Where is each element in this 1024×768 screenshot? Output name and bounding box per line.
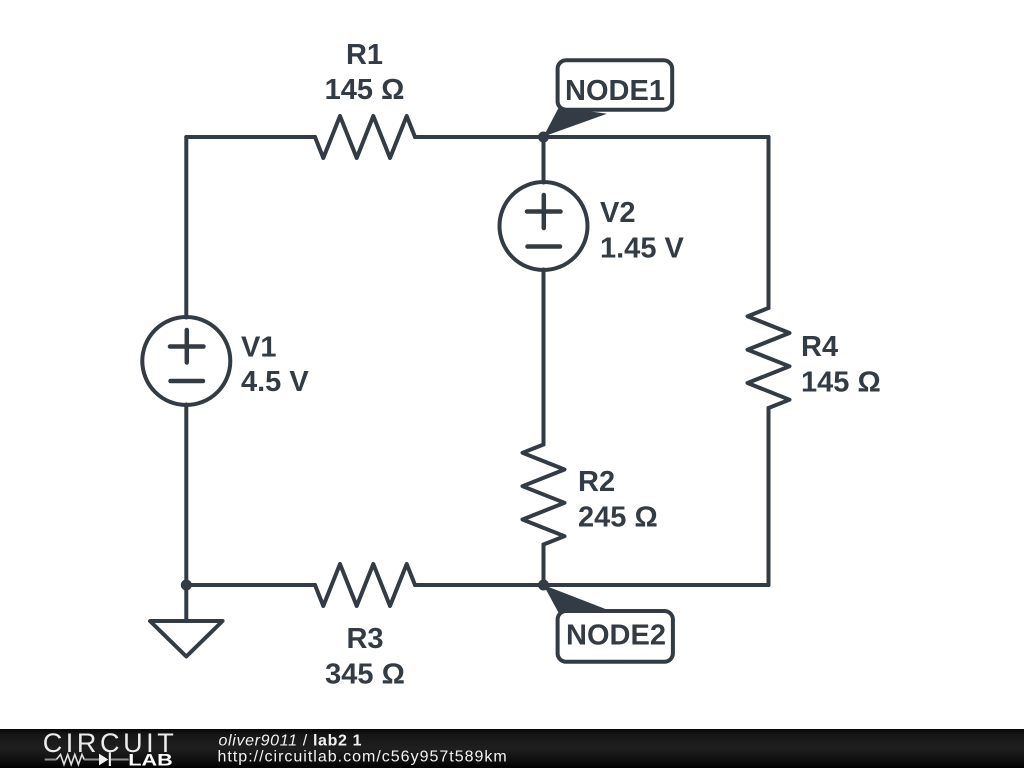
svg-text:NODE1: NODE1	[565, 75, 665, 107]
svg-text:V1: V1	[241, 331, 276, 363]
wire top-right horizontal	[415, 135, 769, 139]
resistor R1	[315, 116, 415, 158]
node NODE2 callout	[544, 585, 673, 662]
wire left vertical lower	[184, 405, 188, 586]
svg-text:1.45 V: 1.45 V	[600, 233, 684, 265]
node junction dot NODE2	[538, 580, 549, 591]
svg-text:NODE2: NODE2	[566, 620, 666, 652]
voltage source V2	[500, 182, 588, 270]
svg-text:245 Ω: 245 Ω	[578, 502, 658, 534]
svg-text:R3: R3	[346, 623, 383, 655]
node junction dot NODE1	[538, 132, 549, 143]
voltage source V1	[142, 317, 230, 405]
wire bottom-left horizontal	[186, 583, 315, 587]
svg-text:145 Ω: 145 Ω	[801, 367, 881, 399]
svg-text:R1: R1	[346, 39, 383, 71]
wire bottom-right horizontal	[415, 583, 769, 587]
footer bar	[0, 729, 1024, 768]
svg-text:oliver9011 / lab2 1: oliver9011 / lab2 1	[219, 733, 363, 750]
svg-text:345 Ω: 345 Ω	[325, 659, 405, 691]
node junction dot ground	[181, 580, 192, 591]
svg-text:145 Ω: 145 Ω	[325, 74, 405, 106]
svg-text:R2: R2	[578, 466, 615, 498]
node NODE1 callout	[544, 60, 673, 136]
wire middle branch lower	[542, 545, 546, 586]
svg-text:http://circuitlab.com/c56y957t: http://circuitlab.com/c56y957t589km	[218, 749, 508, 766]
svg-text:V2: V2	[600, 197, 635, 229]
wire middle branch upper	[542, 137, 546, 183]
CircuitLab logo resistor-diode squiggle	[45, 752, 129, 766]
ground	[150, 585, 223, 657]
wire right vertical upper	[767, 137, 771, 308]
svg-text:LAB: LAB	[128, 751, 173, 768]
resistor R3	[315, 564, 415, 606]
wire middle branch mid	[542, 270, 546, 445]
wire top-left horizontal	[186, 135, 315, 139]
resistor R2	[523, 445, 565, 545]
svg-text:4.5 V: 4.5 V	[241, 366, 309, 398]
svg-text:R4: R4	[801, 331, 838, 363]
resistor R4	[748, 308, 790, 408]
wire right vertical lower	[767, 408, 771, 585]
wire left vertical upper	[184, 137, 188, 318]
